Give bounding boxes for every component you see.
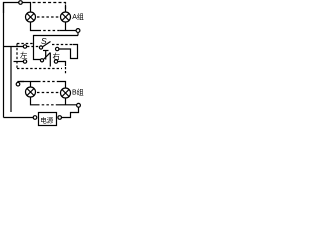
- bottom wire to battery: [4, 117, 34, 119]
- node terminal right: [76, 29, 80, 33]
- svg-text:B组: B组: [72, 88, 84, 97]
- dashed box left edge: [16, 44, 18, 69]
- contact left-top: [23, 45, 26, 48]
- battery right terminal: [58, 116, 62, 120]
- dashed blade-tip to right link: [52, 44, 73, 46]
- lamp L3 feed: [30, 82, 32, 88]
- lamp L1: [26, 12, 36, 22]
- switch blade bottom: [43, 53, 50, 60]
- dashed wire between A lamps: [37, 16, 59, 18]
- wire A-row bottom right: [60, 30, 76, 32]
- contact right-top: [56, 47, 59, 50]
- wire to left contact: [4, 46, 24, 48]
- svg-text:S: S: [41, 36, 47, 46]
- dashed link left contact to blade: [27, 46, 40, 48]
- contact left-bottom wire: [14, 61, 24, 63]
- B-row top wire: [20, 81, 38, 83]
- wire right-bottom contact: [58, 62, 66, 67]
- wire node down to box top: [77, 33, 79, 36]
- power supply box: [39, 113, 57, 126]
- wire lamp2 drop: [65, 5, 67, 13]
- B-row bottom dashed: [37, 104, 58, 106]
- svg-text:左: 左: [20, 50, 28, 60]
- lamp L2: [61, 12, 71, 22]
- pole crossbar: [43, 50, 49, 52]
- wire top to lamp L1: [23, 3, 31, 13]
- wire lamp1 bottom: [31, 22, 39, 31]
- lamp L3: [26, 87, 36, 97]
- wire top dashed continuation: [33, 3, 66, 13]
- contact left-bottom: [23, 60, 26, 63]
- B-row right terminal: [77, 103, 81, 107]
- blade bottom tail: [49, 53, 51, 67]
- wire top-left horizontal: [4, 3, 19, 14]
- B-row right corner into lamp4: [57, 82, 66, 89]
- inner left vertical: [10, 47, 12, 113]
- B-row terminal corner: [18, 81, 24, 84]
- lamp L4: [61, 88, 71, 98]
- battery left terminal: [33, 116, 37, 120]
- svg-text:电源: 电源: [40, 115, 54, 124]
- B-row bottom right solid: [58, 104, 77, 106]
- switch blade pivot top: [39, 46, 42, 49]
- wire box top edge: [34, 36, 79, 60]
- blade bottom pivot: [40, 59, 43, 62]
- contact right-bottom: [54, 60, 57, 63]
- right assembly solid: [59, 45, 78, 59]
- svg-text:A组: A组: [72, 12, 84, 21]
- lamp3 bottom wire: [31, 97, 38, 105]
- node terminal top wire: [19, 1, 23, 5]
- left bus: [3, 3, 5, 118]
- switch blade top: [42, 42, 50, 47]
- B-row top dashed: [38, 81, 57, 83]
- svg-text:右: 右: [53, 51, 61, 61]
- lamp4 bottom: [65, 98, 67, 105]
- wire lamp2 bottom to node: [65, 22, 67, 31]
- right return zigzag: [62, 107, 79, 117]
- wire A-row bottom dashed: [39, 30, 61, 32]
- dashed drop to B wire: [65, 67, 67, 74]
- dashed wire between B lamps: [37, 92, 59, 94]
- dashed box top edge: [17, 43, 33, 45]
- pole wire: [45, 51, 47, 60]
- dashed box bottom edge: [17, 68, 62, 70]
- B-row terminal circle: [16, 82, 20, 86]
